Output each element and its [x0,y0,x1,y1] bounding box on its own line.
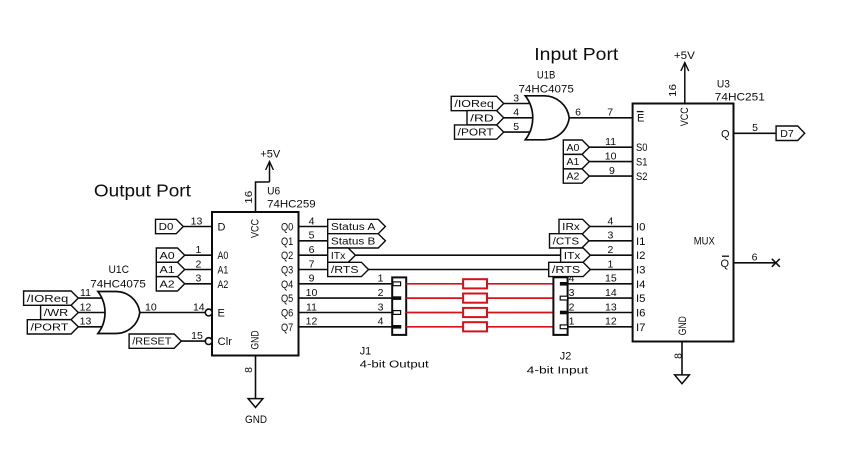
svg-text:Q1: Q1 [281,236,293,248]
svg-text:3: 3 [513,92,519,104]
svg-text:4-bit Output: 4-bit Output [360,359,429,371]
pin 14 number (U6.E) [193,301,205,313]
+5V power symbol (U3) [674,50,696,103]
U6 pin name A0 [218,250,229,262]
svg-text:S2: S2 [636,171,648,183]
svg-text:J2: J2 [560,350,572,362]
U3 pin name I4 [636,279,646,291]
svg-text:7: 7 [309,258,315,270]
U6 pin name VCC [250,219,262,238]
pin 3 number [195,273,201,285]
svg-text:Status B: Status B [331,236,376,247]
IC U6 74HC259 body [212,212,299,356]
designator J2 [560,350,572,362]
wire net /RTS long [369,269,549,271]
svg-text:9: 9 [609,165,615,177]
U3 pin name Qbar with overline [720,256,729,270]
U6 pin name Q7 [281,322,293,334]
svg-text:+5V: +5V [260,148,281,160]
svg-text:12: 12 [306,316,318,328]
J1 pin 4 stub [393,325,401,329]
pin 10 number (U1C out) [145,301,157,313]
wire J2 pin 1 to U3.I7 [568,326,633,328]
pin 11 number (U3) [605,136,616,148]
wire A0 to U3.S0 [589,146,632,148]
svg-text:74HC4075: 74HC4075 [90,279,146,291]
svg-text:Status A: Status A [331,222,376,233]
svg-text:4: 4 [378,316,384,328]
resistor (red) row 1 [463,279,487,288]
pin 1 number (U3) [607,258,613,270]
label IRx [559,219,590,233]
U3 pin name S2 [636,171,648,183]
svg-text:13: 13 [191,215,203,227]
wire /RTS to U3.I3 [590,269,632,271]
pin 9 number (U3) [609,165,615,177]
U3 pin name I6 [636,308,646,320]
svg-text:I6: I6 [636,308,646,320]
svg-text:15: 15 [605,273,617,285]
svg-text:10: 10 [605,150,617,162]
wire /IOReq into U1B [504,103,540,105]
wire net ITx long [355,254,560,256]
value 74HC259 [267,199,316,211]
designator J1 [360,346,372,358]
label A0 [156,248,184,262]
U6 pin name Q1 [281,236,293,248]
svg-text:10: 10 [145,301,157,313]
pin 8 number (U6) [243,367,255,373]
svg-text:8: 8 [673,353,685,359]
U6 pin name A1 [218,265,229,277]
pin 8 number (U3) [673,353,685,359]
svg-text:74HC251: 74HC251 [715,92,765,104]
svg-text:5: 5 [309,230,315,242]
svg-text:A1: A1 [218,265,229,277]
J2 description 4-bit Input [527,365,589,377]
GND net label [245,414,267,426]
J2 pin 4 stub [560,282,568,286]
svg-text:4-bit Input: 4-bit Input [527,365,589,377]
pin 12 number [306,316,318,328]
ground symbol (U3) [675,375,690,384]
svg-text:13: 13 [605,301,617,313]
wire U6.Q4 to J1 pin 1 [299,283,401,285]
label /RTS (left) [328,262,369,276]
svg-text:A1: A1 [567,157,580,168]
wire A0 to U6.A0 [185,254,212,256]
designator U6 [267,185,280,197]
wire /PORT into U1C [78,326,112,328]
wire U1C out to U6.E [140,312,206,314]
svg-text:4: 4 [309,215,315,227]
pin 11 number [80,287,91,299]
J2 pin 1 number [569,316,575,328]
svg-text:6: 6 [309,244,315,256]
U6 pin name Q5 [281,293,293,305]
U6 pin name D [218,222,226,234]
pin 16 number (U3 VCC) [667,84,679,97]
value 74HC251 [715,92,765,104]
resistor (red) row 3 [463,308,487,317]
svg-text:+5V: +5V [674,50,696,62]
svg-text:9: 9 [309,273,315,285]
label /WR [41,305,79,319]
wire U3.GND pin 8 [681,342,683,375]
label /RESET [129,334,181,348]
pin 7 number (U3.E) [607,107,613,119]
svg-text:A2: A2 [218,279,229,291]
wire J2 pin 2 to U3.I6 [568,312,633,314]
J1 pin 3 number [378,301,384,313]
svg-text:/PORT: /PORT [31,322,69,333]
pin 4 number [309,215,315,227]
svg-text:/RD: /RD [470,113,494,124]
svg-text:E: E [218,308,225,320]
J2 pin 3 number [569,287,575,299]
svg-text:Q: Q [720,258,729,270]
wire D0 to U6.D [183,226,212,228]
value 74HC4075 (U1C) [90,279,146,291]
svg-text:IRx: IRx [562,222,580,233]
pin 7 number [309,258,315,270]
pin 10 number (U3) [605,150,617,162]
U3 pin name S1 [636,157,648,169]
resistor (red) row 4 [463,322,487,331]
svg-text:GND: GND [250,330,262,349]
U3 pin name Q [721,128,730,140]
wire /IOReq into U1C [78,297,112,299]
svg-text:/PORT: /PORT [458,128,494,139]
U6 pin name Q4 [281,279,293,291]
J2 pin 2 number [569,301,575,313]
svg-text:VCC: VCC [679,107,691,126]
svg-text:16: 16 [243,191,255,204]
label A2 [156,277,184,291]
J1 description 4-bit Output [360,359,429,371]
svg-text:8: 8 [243,367,255,373]
pin 13 number [191,215,203,227]
svg-text:/RTS: /RTS [331,265,359,276]
svg-text:I4: I4 [636,279,646,291]
pin 5 number [309,230,315,242]
svg-text:I0: I0 [636,222,646,234]
svg-text:2: 2 [378,287,384,299]
label D7 [776,126,805,141]
or-gate U1C 74HC4075 [98,292,140,334]
svg-text:Q6: Q6 [281,308,293,320]
svg-text:VCC: VCC [250,219,262,238]
svg-text:Output Port: Output Port [94,181,191,201]
wire +5V to U6 VCC pin 16 [256,182,270,212]
svg-text:7: 7 [607,107,613,119]
pin 3 number (U1B) [513,92,519,104]
U6 pin name Q3 [281,265,293,277]
label ITx (right) [561,248,591,262]
svg-text:Q5: Q5 [281,293,293,305]
U3 pin name I1 [636,236,646,248]
label ITx (left) [328,248,356,262]
pin 16 number (U6 VCC) [243,191,255,204]
pin 10 number [306,287,318,299]
svg-text:3: 3 [607,230,613,242]
red wire J1-3 to J2-2 [406,312,553,314]
U3 pin name E with overline [637,112,645,125]
svg-text:I7: I7 [636,322,646,334]
svg-text:Q7: Q7 [281,322,293,334]
label /RD [467,111,504,125]
svg-text:3: 3 [378,301,384,313]
svg-text:A2: A2 [160,279,176,290]
svg-text:GND: GND [245,414,267,426]
svg-text:5: 5 [513,121,519,133]
pin 15 number [191,330,203,342]
svg-text:U6: U6 [267,185,280,197]
U6 pin name Q2 [281,250,293,262]
or-gate U1B 74HC4075 [525,96,569,140]
wire U6.Q7 to J1 pin 4 [299,326,401,328]
pin 4 number (U3) [607,215,613,227]
J1 pin 3 stub [393,311,401,315]
svg-text:14: 14 [193,301,205,313]
red wire J1-4 to J2-1 [406,326,553,328]
wire A2 to U6.A2 [185,283,212,285]
wire /RD into U1B [504,117,544,119]
svg-text:11: 11 [605,136,616,148]
svg-text:A0: A0 [218,250,229,262]
U3 pin name I0 [636,222,646,234]
svg-text:14: 14 [605,287,617,299]
label /RTS (right) [549,262,591,276]
U3 pin name I3 [636,265,646,277]
pin 14 number [605,287,617,299]
J1 pin 2 number [378,287,384,299]
wire /PORT into U1B [504,131,540,133]
connector J2 body [553,277,567,335]
svg-text:12: 12 [605,316,617,328]
connector J1 body [392,277,406,335]
svg-text:D: D [218,222,226,234]
wire U6.Q5 to J1 pin 2 [299,297,401,299]
wire A1 to U3.S1 [589,161,632,163]
J2 pin 2 stub [560,311,568,315]
wire U6.Q3 to /RTS [299,269,328,271]
U3 pin name I7 [636,322,646,334]
svg-text:D7: D7 [780,129,794,140]
designator U1C [109,264,130,276]
pin 6 number [309,244,315,256]
svg-text:12: 12 [80,301,92,313]
svg-text:3: 3 [569,287,575,299]
wire A2 to U3.S2 [589,175,632,177]
wire /WR into U1C [78,312,116,314]
svg-text:I1: I1 [636,236,646,248]
svg-text:1: 1 [195,244,201,256]
svg-text:U1B: U1B [537,70,556,82]
svg-text:/IOReq: /IOReq [454,99,493,110]
svg-text:15: 15 [191,330,203,342]
label /PORT (U1C) [27,320,78,334]
svg-text:Q3: Q3 [281,265,293,277]
wire U6.Q2 to ITx [299,254,328,256]
inversion bubble U6.E [205,309,212,316]
wire /CTS to U3.I1 [589,240,633,242]
pin 3 number (U3) [607,230,613,242]
label A1 [156,262,184,276]
svg-text:2: 2 [569,301,575,313]
svg-text:5: 5 [752,122,758,134]
label /CTS [550,234,590,248]
pin 5 number (U3.Q) [752,122,758,134]
pin 4 number (U1B) [513,107,519,119]
U6 pin name Q6 [281,308,293,320]
IC U3 74HC251 body [633,104,734,342]
U6 pin name Q0 [281,222,293,234]
label A0 (U3) [563,140,589,154]
svg-text:/WR: /WR [44,308,69,319]
svg-text:/CTS: /CTS [553,236,580,247]
red wire J1-1 to J2-4 [406,283,553,285]
svg-text:11: 11 [80,287,91,299]
J1 pin 1 number [378,273,384,285]
J1 pin 1 stub [393,282,401,286]
U6 pin name A2 [218,279,229,291]
svg-text:A1: A1 [160,265,176,276]
wire J2 pin 4 to U3.I4 [568,283,633,285]
svg-text:/RTS: /RTS [552,265,581,276]
pin 2 number [195,258,201,270]
wire U3.Q to D7 [734,132,777,134]
wire J2 pin 3 to U3.I5 [568,297,633,299]
svg-text:MUX: MUX [694,236,716,248]
red wire J1-2 to J2-3 [406,297,553,299]
wire U3.Qbar no-connect [734,262,776,264]
svg-text:13: 13 [80,316,92,328]
value 74HC4075 (U1B) [519,83,574,95]
svg-text:ITx: ITx [331,251,346,262]
svg-text:GND: GND [677,316,689,335]
svg-text:10: 10 [306,287,318,299]
label A1 (U3) [563,154,589,168]
svg-text:E: E [637,113,644,125]
no-connect X [772,259,780,267]
pin 5 number (U1B) [513,121,519,133]
U3 pin name GND [677,316,689,335]
svg-text:74HC259: 74HC259 [267,199,316,211]
wire IRx to U3.I0 [590,226,633,228]
svg-text:U3: U3 [717,79,730,91]
U6 pin name GND [250,330,262,349]
+5V power symbol (U6) [260,148,281,182]
svg-text:I5: I5 [636,293,646,305]
J1 pin 2 stub [393,296,401,300]
svg-text:3: 3 [195,273,201,285]
label /IOReq (U1C) [24,291,79,305]
designator U3 [717,79,730,91]
U6 pin name Clr [218,336,233,348]
svg-text:11: 11 [306,301,317,313]
J1 pin 4 number [378,316,384,328]
svg-text:74HC4075: 74HC4075 [519,83,574,95]
svg-text:A2: A2 [567,172,580,183]
pin 2 number (U3) [607,244,613,256]
pin 13 number [605,301,617,313]
pin 13 number (U1C) [80,316,92,328]
svg-text:S1: S1 [636,157,648,169]
wire A1 to U6.A1 [185,269,212,271]
U3 pin name I5 [636,293,646,305]
svg-text:6: 6 [575,107,581,119]
svg-text:4: 4 [607,215,613,227]
U3 pin name VCC [679,107,691,126]
pin 11 number [306,301,317,313]
svg-text:S0: S0 [636,142,648,154]
pin 6 number (U3.Qbar) [752,252,758,264]
wire U6.Q0 to Status A [299,226,328,228]
wire ITx to U3.I2 [590,254,632,256]
wire U6.Q6 to J1 pin 3 [299,312,401,314]
inversion bubble U6.Clr [205,338,212,345]
wire U6.Q1 to Status B [299,240,328,242]
J2 pin 4 number [569,273,575,285]
label D0 [156,219,184,233]
label Status A [328,219,386,233]
svg-text:/IOReq: /IOReq [27,294,69,305]
svg-text:Input Port: Input Port [534,44,618,64]
svg-text:Q4: Q4 [281,279,293,291]
U3 pin name S0 [636,142,648,154]
svg-text:1: 1 [569,316,575,328]
ground symbol (U6) [248,399,263,408]
label A2 (U3) [563,169,589,183]
label Status B [328,234,386,248]
J2 pin 1 stub [560,325,567,329]
svg-text:6: 6 [752,252,758,264]
title Input Port [534,44,618,64]
svg-text:A0: A0 [567,143,580,154]
svg-text:/RESET: /RESET [132,337,171,348]
svg-text:U1C: U1C [109,264,130,276]
svg-text:Q0: Q0 [281,222,293,234]
wire U1B out to U3.E [569,117,632,119]
pin 12 number [80,301,92,313]
wire U6.GND pin 8 [255,356,257,399]
svg-text:Q2: Q2 [281,250,293,262]
svg-text:J1: J1 [360,346,372,358]
U3 MUX text [694,236,716,248]
svg-text:Clr: Clr [218,336,233,348]
pin 6 number (U1B out) [575,107,581,119]
pin 9 number [309,273,315,285]
svg-text:1: 1 [607,258,613,270]
svg-text:D0: D0 [159,222,174,233]
svg-text:I2: I2 [636,250,646,262]
svg-text:16: 16 [667,84,679,97]
U3 pin name I2 [636,250,646,262]
svg-text:1: 1 [378,273,384,285]
label /IOReq (U1B) [451,96,504,110]
wire /RESET to U6.Clr [181,340,205,342]
svg-text:ITx: ITx [564,251,581,262]
svg-text:2: 2 [607,244,613,256]
svg-text:4: 4 [513,107,519,119]
pin 15 number [605,273,617,285]
svg-text:2: 2 [195,258,201,270]
svg-text:Q: Q [721,128,730,140]
resistor (red) row 2 [463,294,487,303]
designator U1B [537,70,556,82]
pin 12 number [605,316,617,328]
